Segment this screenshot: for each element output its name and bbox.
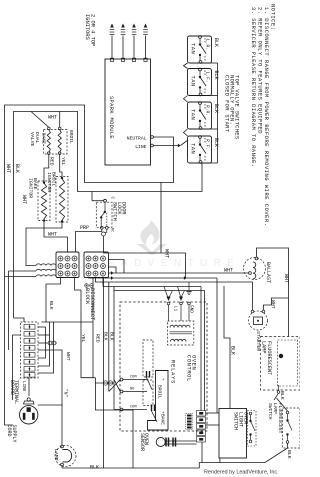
svg-text:IGNITOR: IGNITOR	[46, 172, 52, 192]
svg-text:BAKE: BAKE	[41, 133, 47, 144]
svg-text:TAN: TAN	[190, 43, 196, 54]
svg-text:R.F.: R.F.	[205, 139, 211, 150]
svg-text:BAKE: BAKE	[160, 414, 166, 425]
svg-text:WHT: WHT	[21, 195, 27, 204]
svg-text:L.F.: L.F.	[205, 72, 211, 83]
svg-text:NO: NO	[130, 388, 134, 392]
svg-text:1. DISCONNECT RANGE FROM POWER: 1. DISCONNECT RANGE FROM POWER BEFORE RE…	[263, 7, 269, 227]
svg-text:CLOSED FOR START: CLOSED FOR START	[224, 75, 230, 133]
svg-text:NOTICE:: NOTICE:	[270, 4, 276, 31]
svg-text:BLK: BLK	[103, 332, 109, 341]
svg-text:BLK: BLK	[90, 465, 99, 471]
svg-text:3. SERVICER PLEASE RETURN DIAG: 3. SERVICER PLEASE RETURN DIAGRAM TO RAN…	[250, 7, 256, 168]
svg-text:BLK: BLK	[213, 104, 219, 113]
svg-text:BLK: BLK	[108, 332, 114, 341]
svg-text:BLK: BLK	[279, 391, 285, 400]
svg-text:WHT: WHT	[5, 164, 11, 173]
svg-text:TAN: TAN	[190, 109, 196, 120]
svg-text:R.R.: R.R.	[205, 105, 211, 116]
svg-text:BLK: BLK	[213, 138, 219, 147]
svg-text:LAMP: LAMP	[261, 341, 267, 353]
svg-text:BALLAST: BALLAST	[265, 262, 271, 283]
svg-text:LINE: LINE	[135, 144, 146, 150]
svg-text:BLK: BLK	[213, 71, 219, 80]
svg-text:COM: COM	[130, 376, 136, 380]
svg-text:COM: COM	[130, 406, 136, 410]
svg-text:PRP: PRP	[80, 225, 89, 231]
svg-text:BOARD: BOARD	[9, 380, 15, 395]
svg-text:SPARK MODULE: SPARK MODULE	[108, 96, 114, 139]
svg-text:TAN: TAN	[190, 76, 196, 87]
svg-text:SENSOR: SENSOR	[139, 433, 145, 451]
svg-text:BLK: BLK	[213, 38, 219, 47]
svg-text:TAN: TAN	[190, 143, 196, 154]
svg-text:WHT: WHT	[48, 232, 57, 238]
svg-text:SWITCH: SWITCH	[112, 202, 118, 221]
svg-text:SWITCH: SWITCH	[267, 403, 273, 420]
svg-text:NEUTRAL: NEUTRAL	[127, 136, 147, 142]
svg-text:WHT: WHT	[65, 352, 71, 361]
svg-text:BLK: BLK	[14, 164, 20, 173]
svg-text:RED: RED	[49, 157, 55, 166]
svg-text:L1: L1	[173, 306, 178, 312]
svg-text:STARTER: STARTER	[255, 331, 261, 351]
svg-text:+: +	[162, 378, 165, 383]
svg-text:CORD: CORD	[6, 425, 12, 437]
svg-text:IGNITOR: IGNITOR	[28, 178, 34, 198]
svg-text:LAMP: LAMP	[53, 449, 59, 461]
svg-text:RELAYS: RELAYS	[169, 360, 175, 384]
svg-text:NC: NC	[110, 228, 114, 232]
svg-text:IGNITORS: IGNITORS	[84, 14, 90, 40]
svg-text:WHT: WHT	[48, 115, 57, 121]
svg-text:CONTROL: CONTROL	[185, 355, 191, 382]
svg-text:WHT: WHT	[163, 249, 169, 258]
svg-text:SWITCH: SWITCH	[233, 412, 239, 430]
svg-text:BROIL: BROIL	[157, 385, 163, 399]
svg-text:"N": "N"	[63, 389, 69, 398]
svg-text:GND: GND	[189, 305, 194, 313]
svg-text:VALVE: VALVE	[29, 132, 35, 147]
svg-text:BLK: BLK	[286, 450, 292, 459]
svg-text:BROIL: BROIL	[68, 130, 74, 144]
svg-text:L.R.: L.R.	[205, 39, 211, 50]
svg-text:WHT: WHT	[270, 300, 276, 309]
svg-text:BLOCK: BLOCK	[84, 288, 90, 305]
svg-text:BLK: BLK	[48, 301, 54, 310]
svg-text:RED: RED	[95, 334, 101, 343]
svg-text:YEL: YEL	[60, 157, 66, 166]
svg-text:LINE: LINE	[21, 381, 26, 392]
svg-text:WHT: WHT	[224, 268, 233, 274]
svg-text:2. REFER ONLY TO FEATURES EQUI: 2. REFER ONLY TO FEATURES EQUIPPED	[257, 7, 263, 134]
svg-text:BLK: BLK	[229, 346, 235, 355]
svg-text:WHT: WHT	[283, 274, 289, 283]
svg-text:Rendered by LeadVenture, Inc.: Rendered by LeadVenture, Inc.	[204, 470, 279, 476]
